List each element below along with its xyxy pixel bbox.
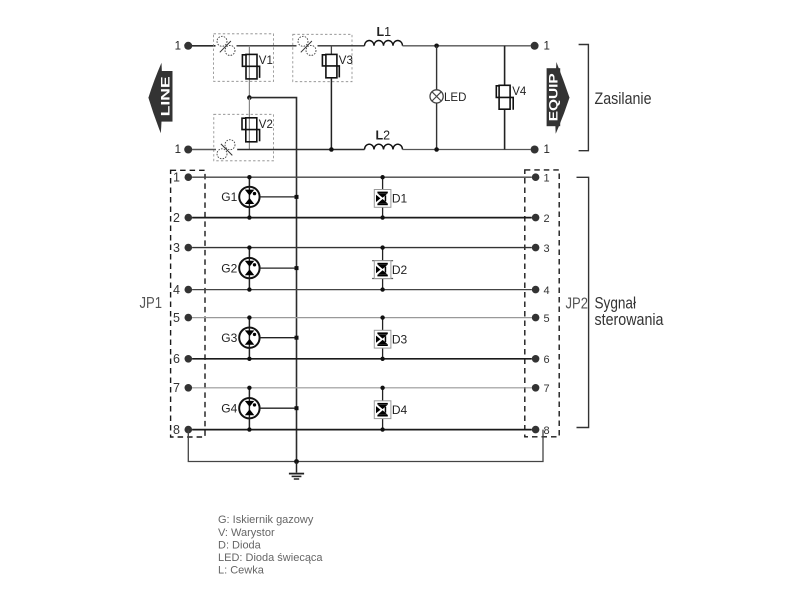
wire: top-left terminal to fuse F1 — [192, 45, 216, 47]
diode D4 — [374, 388, 391, 430]
JP1 pin 3 — [185, 244, 193, 252]
node: G2 output junction square — [295, 266, 299, 270]
node: D1 top — [380, 175, 384, 179]
node: LED to bottom wire — [434, 147, 439, 152]
svg-text:7: 7 — [173, 381, 180, 395]
svg-text:V1: V1 — [259, 55, 273, 67]
wire: signal row 3 — [192, 247, 532, 249]
wire: fuse F2 to L2 — [237, 149, 364, 151]
node: D3 bottom — [380, 357, 384, 361]
svg-text:LINE: LINE — [158, 76, 172, 116]
JP1 pin 6 — [185, 355, 193, 363]
wire: V3 stub top — [330, 46, 332, 55]
JP2 pin 3 — [532, 244, 540, 252]
svg-text:2: 2 — [173, 211, 180, 225]
svg-text:G1: G1 — [221, 190, 237, 204]
svg-text:LED: LED — [444, 92, 466, 104]
svg-text:L2: L2 — [376, 129, 391, 143]
svg-text:V4: V4 — [512, 86, 527, 98]
wire: signal row 5 — [192, 317, 532, 319]
bracket: Sygnal sterowania — [577, 177, 589, 427]
node: ground bus junction — [294, 459, 299, 464]
svg-text:6: 6 — [544, 354, 550, 366]
svg-text:JP1: JP1 — [140, 295, 163, 312]
inductor L2 — [365, 144, 403, 149]
svg-text:V: Warystor: V: Warystor — [218, 527, 275, 539]
node: G1 output junction square — [295, 195, 299, 199]
node: G2 bottom — [247, 287, 251, 291]
node: D1 bottom — [380, 215, 384, 219]
node: G4 output junction square — [295, 406, 299, 410]
diode D3 — [374, 318, 391, 359]
svg-text:5: 5 — [544, 313, 550, 325]
thermal fuse F1 slash — [220, 41, 231, 52]
node: V3 to bottom wire — [329, 147, 334, 152]
JP2 pin 1 — [532, 173, 540, 181]
svg-text:2: 2 — [544, 213, 550, 225]
wire: bottom-left terminal to fuse F2 — [192, 149, 216, 151]
wire: V4 branch — [504, 46, 506, 150]
terminal 1 top-right dot — [531, 42, 539, 50]
svg-text:D4: D4 — [392, 403, 408, 417]
svg-text:6: 6 — [173, 352, 180, 366]
varistor V3 body — [326, 54, 337, 77]
JP2 connector dashed box — [525, 170, 559, 437]
JP2 pin 2 — [532, 214, 540, 222]
JP1 pin 5 — [185, 314, 193, 322]
bracket: Zasilanie — [579, 45, 589, 151]
svg-text:1: 1 — [175, 144, 181, 156]
wire: fuse F1 to fuse F3 — [237, 45, 297, 47]
diode D1 — [374, 177, 391, 217]
svg-text:1: 1 — [175, 41, 181, 53]
JP2 pin 4 — [532, 286, 540, 294]
JP2 pin 7 — [532, 384, 540, 392]
varistor V4 body — [499, 85, 510, 109]
wire: LED branch upper — [436, 46, 438, 90]
LED lamp symbol — [430, 90, 443, 103]
svg-text:L1: L1 — [377, 25, 392, 39]
svg-text:G: Iskiernik gazowy: G: Iskiernik gazowy — [218, 514, 314, 526]
terminal 1 top-left dot — [184, 42, 192, 50]
node: G4 bottom — [247, 427, 251, 431]
svg-text:3: 3 — [173, 241, 180, 255]
inductor L1 — [365, 41, 403, 46]
node: G4 top — [247, 386, 251, 390]
dashed box around F3 and V3 — [293, 34, 352, 81]
terminal 1 bottom-left dot — [184, 146, 192, 154]
wire: junction to ground bus corner — [249, 98, 296, 462]
gas discharge tube G4 — [239, 388, 259, 430]
gas discharge tube G2 — [239, 248, 259, 290]
wire: G1 output to ground bus — [260, 196, 297, 198]
wire: L2 to bottom-right terminal — [403, 149, 531, 151]
wire: signal row 1 — [192, 176, 532, 178]
node: G3 output junction square — [295, 336, 299, 340]
JP1 pin 2 — [185, 214, 193, 222]
node: G1 top — [247, 175, 251, 179]
ground symbol — [289, 462, 304, 480]
JP1 connector dashed box — [171, 170, 205, 437]
svg-text:8: 8 — [544, 425, 550, 437]
wire: G2 output to ground bus — [260, 267, 297, 269]
thermal fuse F1 squiggle — [217, 36, 235, 55]
node: G2 top — [247, 245, 251, 249]
svg-text:1: 1 — [544, 144, 550, 156]
node: LED branch on top wire — [434, 44, 439, 49]
JP1 pin 4 — [185, 286, 193, 294]
svg-text:3: 3 — [544, 243, 550, 255]
svg-text:8: 8 — [173, 423, 180, 437]
svg-text:LED: Dioda świecąca: LED: Dioda świecąca — [218, 552, 323, 564]
JP1 pin 1 — [185, 173, 193, 181]
node: D3 top — [380, 315, 384, 319]
varistor V4 strike — [496, 86, 513, 110]
svg-text:D2: D2 — [392, 263, 408, 277]
svg-text:1: 1 — [173, 171, 180, 185]
JP1 pin 8 — [185, 426, 193, 434]
svg-text:V2: V2 — [259, 119, 273, 131]
gas discharge tube G1 — [239, 177, 259, 217]
svg-text:5: 5 — [173, 311, 180, 325]
wire: signal row 6 — [192, 358, 532, 360]
dashed box around F2 and V2 — [214, 114, 274, 161]
svg-text:G2: G2 — [221, 261, 237, 275]
wire: signal row 2 — [192, 217, 532, 219]
wire: ground return path — [188, 430, 543, 462]
svg-text:4: 4 — [544, 285, 550, 297]
LINE arrow — [148, 63, 172, 133]
node: D4 top — [380, 386, 384, 390]
svg-text:G4: G4 — [221, 401, 237, 415]
svg-text:L: Cewka: L: Cewka — [218, 565, 265, 577]
wire: V1 stub from top wire down through varistor — [248, 46, 250, 98]
node: G1 bottom — [247, 215, 251, 219]
svg-text:1: 1 — [544, 41, 550, 53]
node: G3 bottom — [247, 357, 251, 361]
svg-text:D3: D3 — [392, 332, 408, 346]
svg-text:D: Dioda: D: Dioda — [218, 539, 262, 551]
varistor V1 body — [246, 54, 257, 79]
svg-text:G3: G3 — [221, 331, 237, 345]
svg-text:1: 1 — [544, 173, 550, 185]
svg-text:EQUIP: EQUIP — [547, 73, 561, 121]
svg-text:V3: V3 — [339, 55, 353, 67]
svg-text:Zasilanie: Zasilanie — [595, 89, 652, 108]
thermal fuse F2 slash — [221, 144, 232, 156]
varistor V2 body — [246, 118, 257, 142]
wire: L1 to top-right terminal — [403, 45, 531, 47]
varistor V1 strike — [242, 55, 259, 78]
legend — [218, 514, 323, 576]
thermal fuse F2 squiggle (mirrored) — [217, 140, 235, 159]
varistor V2 strike — [242, 118, 260, 141]
JP2 pin 6 — [532, 355, 540, 363]
wire: LED branch lower — [436, 103, 438, 150]
gas discharge tube G3 — [239, 318, 259, 359]
node: G3 top — [247, 315, 251, 319]
terminal 1 bottom-right dot — [531, 146, 539, 154]
dashed box around F1 and V1 — [214, 34, 274, 82]
svg-text:sterowania: sterowania — [595, 310, 664, 329]
node: D2 bottom — [380, 287, 384, 291]
wire: G3 output to ground bus — [260, 337, 297, 339]
JP2 pin 5 — [532, 314, 540, 322]
varistor V3 strike — [322, 55, 339, 78]
wire: G4 output to ground bus — [260, 407, 297, 409]
wire: V3 bottom to bottom wire — [330, 78, 332, 150]
svg-text:7: 7 — [544, 383, 550, 395]
wire: signal row 4 — [192, 289, 532, 291]
JP1 pin 7 — [185, 384, 193, 392]
wire: signal row 8 — [192, 429, 532, 431]
wire: fuse F3 to L1 — [318, 45, 365, 47]
EQUIP arrow — [547, 62, 570, 134]
JP2 pin 8 — [532, 426, 540, 434]
thermal fuse F3 slash — [301, 41, 312, 52]
wire: V2 stub — [248, 98, 250, 150]
svg-text:JP2: JP2 — [566, 295, 589, 312]
node: D2 top — [380, 245, 384, 249]
thermal fuse F3 squiggle — [298, 36, 316, 55]
node: D4 bottom — [380, 427, 384, 431]
node: V1/V2 junction — [247, 95, 252, 100]
diode D2 — [372, 248, 393, 290]
wire: signal row 7 — [192, 387, 532, 389]
svg-text:D1: D1 — [392, 192, 408, 206]
svg-text:4: 4 — [173, 283, 180, 297]
